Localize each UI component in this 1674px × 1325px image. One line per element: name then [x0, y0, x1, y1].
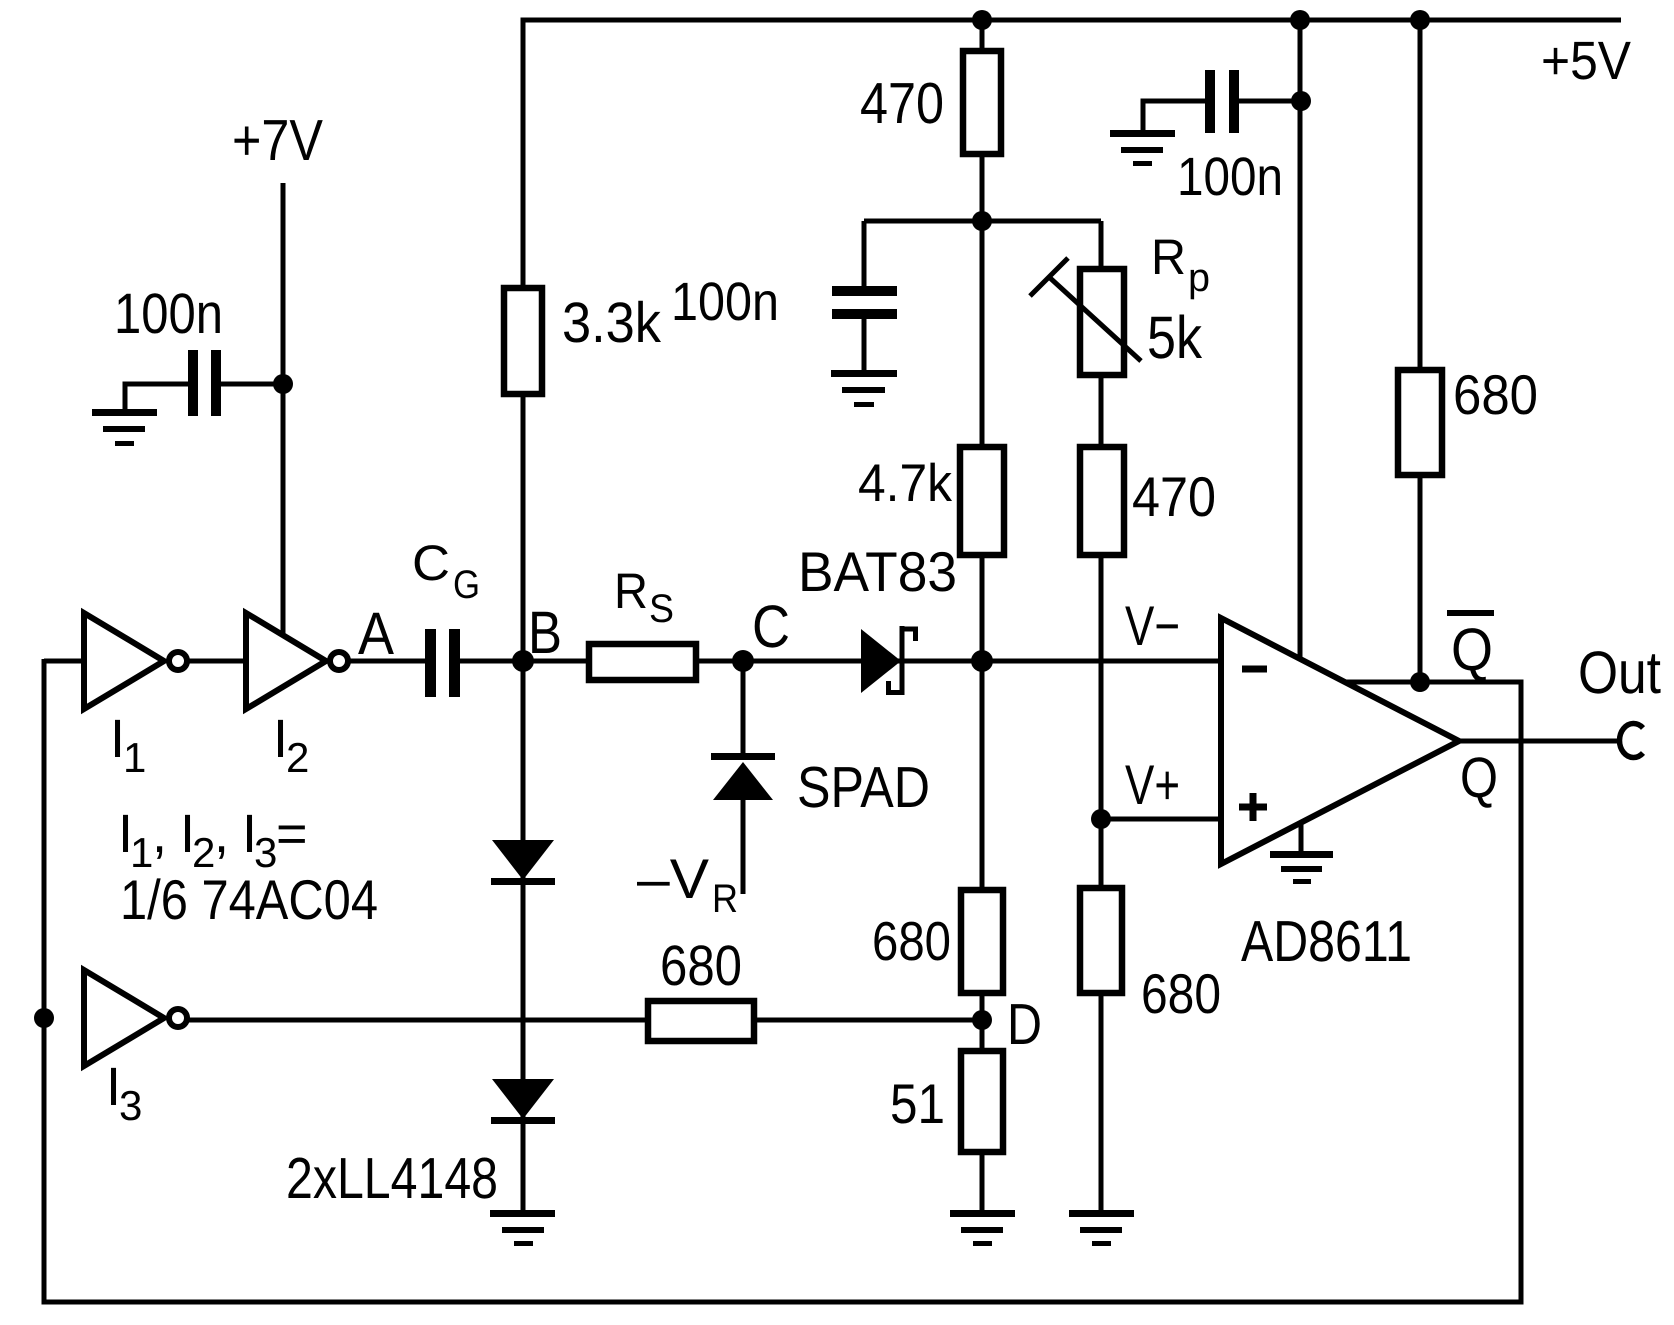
resistor 3.3k	[504, 288, 542, 394]
svg-text:,: ,	[214, 804, 229, 864]
node V- net	[971, 650, 993, 672]
capacitor 100n top-right	[1205, 70, 1215, 133]
svg-text:–V: –V	[637, 847, 710, 910]
resistor Rp 5k body	[1080, 269, 1124, 375]
wire C to BAT83 to V- input	[743, 659, 1219, 664]
svg-text:470: 470	[1132, 465, 1216, 528]
ground (comparator)	[1270, 851, 1333, 884]
svg-text:680: 680	[1453, 363, 1538, 426]
wire SPAD top	[741, 661, 746, 756]
wire +5V to comparator V-supply	[1298, 20, 1303, 660]
node decoupling row	[972, 211, 992, 231]
ground (100n top-right)	[1110, 130, 1175, 166]
svg-text:2: 2	[286, 734, 309, 781]
node B	[512, 650, 534, 672]
resistor 680 right	[1398, 370, 1442, 475]
svg-text:Q: Q	[1451, 616, 1493, 683]
svg-text:680: 680	[660, 934, 742, 998]
wire bottom feedback rail	[42, 1300, 1524, 1305]
ground (51 resistor)	[950, 1210, 1015, 1246]
svg-text:C: C	[752, 593, 790, 660]
svg-text:V−: V−	[1125, 594, 1180, 657]
svg-text:R: R	[614, 563, 648, 619]
wire +7V line	[281, 183, 286, 636]
ground (100n mid)	[831, 370, 897, 407]
wire 100n top-right cap left lead to ground	[1143, 101, 1205, 132]
ground (100n left)	[92, 409, 157, 446]
svg-text:Out: Out	[1578, 639, 1661, 706]
svg-text:D: D	[1007, 992, 1042, 1057]
diode BAT83	[861, 629, 901, 693]
inverter I2	[246, 613, 326, 709]
svg-text:AD8611: AD8611	[1241, 909, 1412, 974]
wire SPAD bottom to -VR	[741, 799, 746, 894]
svg-text:Q: Q	[1460, 746, 1498, 810]
wire Rp/470/680 column	[1099, 221, 1104, 1210]
wire comparator ground stub	[1299, 822, 1304, 852]
svg-text:S: S	[649, 587, 674, 631]
wire right feedback rail	[1519, 682, 1524, 1302]
wire Q output	[1457, 739, 1620, 744]
diode LL4148 upper	[492, 840, 554, 880]
svg-text:1: 1	[123, 734, 146, 781]
svg-text:100n: 100n	[1177, 147, 1283, 207]
inverter I3	[84, 970, 164, 1066]
resistor 680 V+ branch	[1080, 888, 1122, 993]
resistor 470 top	[963, 51, 1001, 154]
svg-text:680: 680	[1141, 962, 1221, 1025]
svg-text:V+: V+	[1125, 753, 1180, 816]
node I3 input	[34, 1008, 54, 1028]
svg-text:p: p	[1188, 256, 1210, 300]
svg-text:R: R	[1151, 229, 1186, 285]
wire 100n left cap to +7V	[220, 382, 283, 387]
svg-text:3.3k: 3.3k	[562, 291, 661, 355]
wire 100n top-right cap right lead	[1239, 99, 1301, 104]
svg-text:51: 51	[890, 1072, 945, 1135]
resistor 680 above D	[961, 890, 1003, 993]
svg-text:A: A	[358, 600, 394, 667]
node Qbar	[1410, 672, 1430, 692]
inverter I1	[84, 613, 164, 709]
comparator plus input symbol	[1239, 804, 1267, 811]
svg-text:BAT83: BAT83	[798, 540, 957, 603]
capacitor 100n mid	[832, 286, 897, 296]
op-amp comparator AD8611	[1221, 618, 1459, 864]
node C	[732, 650, 754, 672]
node +7V cap	[273, 374, 293, 394]
node 100n top-right	[1291, 91, 1311, 111]
resistor RS	[589, 644, 696, 680]
wire I2 to CG	[347, 659, 425, 664]
wire 100n mid cap stubs	[862, 221, 867, 288]
wire I1 input	[44, 659, 86, 664]
ground (680 V+ branch)	[1069, 1210, 1134, 1246]
wire V+ input	[1101, 817, 1219, 822]
wire CG to B to RS to C	[460, 659, 743, 664]
svg-text:100n: 100n	[671, 272, 779, 332]
svg-text:3: 3	[119, 1082, 142, 1129]
svg-text:C: C	[412, 535, 450, 591]
resistor Rp wiper arrow	[1049, 277, 1141, 361]
svg-text:G: G	[453, 563, 480, 607]
node top rail 470	[972, 10, 992, 30]
svg-text:5k: 5k	[1147, 304, 1203, 371]
svg-text:470: 470	[860, 71, 944, 136]
resistor 470 mid	[1080, 447, 1124, 555]
resistor 51	[961, 1051, 1003, 1152]
capacitor CG	[425, 629, 436, 697]
svg-text:+7V: +7V	[232, 108, 323, 173]
diode LL4148 lower	[492, 1079, 554, 1119]
svg-text:100n: 100n	[114, 282, 223, 346]
svg-text:680: 680	[872, 910, 951, 972]
svg-text:B: B	[528, 599, 562, 666]
node top rail 680	[1410, 10, 1430, 30]
comparator minus input symbol	[1242, 666, 1267, 673]
wire decoupling row y=221	[864, 219, 1101, 224]
wire 100n left cap to ground	[125, 384, 188, 411]
ground (diode chain)	[490, 1210, 555, 1246]
svg-text:R: R	[712, 877, 738, 921]
wire I1 to I2	[189, 659, 248, 664]
svg-text:1/6 74AC04: 1/6 74AC04	[120, 868, 378, 931]
svg-text:4.7k: 4.7k	[858, 454, 952, 513]
wire left feedback rail	[42, 659, 47, 1305]
wire Qbar feedback	[1341, 680, 1524, 685]
wire +5V to 680 feedback resistor	[1418, 20, 1423, 682]
svg-text:,: ,	[152, 804, 167, 864]
resistor 680 horizontal	[648, 1001, 754, 1041]
diode SPAD	[711, 753, 775, 760]
svg-text:SPAD: SPAD	[797, 755, 930, 820]
node top rail comparator supply	[1290, 10, 1310, 30]
svg-text:+5V: +5V	[1541, 31, 1631, 91]
svg-text:2xLL4148: 2xLL4148	[286, 1146, 498, 1211]
wire 3.3k / diode chain column	[521, 18, 526, 1211]
wire I3 output row to node D	[189, 1018, 982, 1023]
resistor 4.7k	[960, 447, 1004, 555]
capacitor 100n left	[188, 350, 198, 416]
node V+	[1091, 809, 1111, 829]
wire top +5V rail	[521, 18, 1622, 23]
wire 470/4.7k/680/51 column	[980, 20, 985, 1210]
svg-text:=: =	[276, 804, 308, 864]
Out terminal	[1620, 723, 1643, 757]
node D	[972, 1010, 992, 1030]
